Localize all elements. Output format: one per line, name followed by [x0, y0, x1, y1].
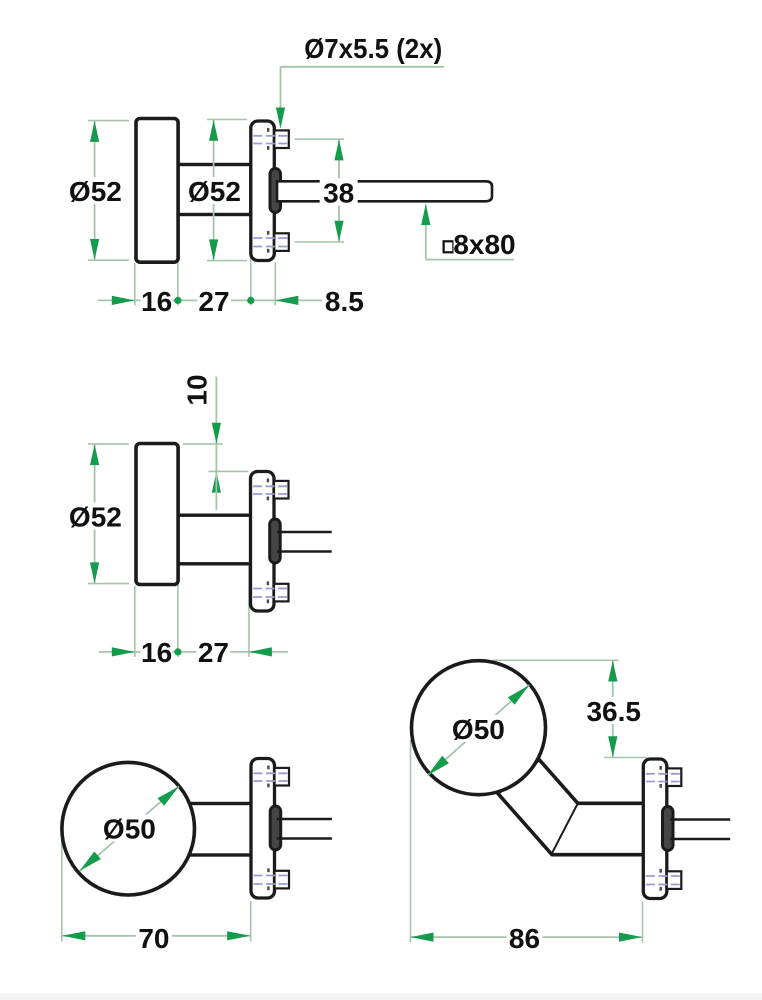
arrow D1 38 down: [334, 221, 343, 242]
spindle 8x80 view1: [277, 181, 492, 201]
rose view2: [251, 472, 289, 612]
svg-text:36.5: 36.5: [586, 696, 641, 727]
text square 8x80: [444, 241, 454, 252]
dim line D2 10 tail: [215, 472, 217, 510]
rose view1: [251, 121, 289, 261]
arrow D2 10 up: [212, 472, 221, 493]
text D1 8.5: [322, 288, 366, 314]
dot D1 16/27: [174, 297, 181, 304]
dim line D4 36.5: [612, 661, 614, 758]
ext line D1 38 top: [295, 138, 345, 140]
dim line D1 bottom: [98, 299, 323, 301]
arrow D1 dia52-left up: [90, 121, 99, 142]
label dia7x5.5 (2x): [300, 34, 446, 61]
rose view3: [251, 759, 289, 899]
dim line D1 dia52-left: [94, 121, 96, 260]
spindle view4 top line: [670, 818, 730, 821]
bent arm view4: [498, 760, 645, 855]
ext line D2 10 lower: [208, 470, 248, 472]
ball knob view3: [62, 762, 195, 895]
ext line D1 27/8.5 shared: [250, 217, 252, 306]
ball knob view4: [412, 661, 546, 795]
dot D1 27/8.5: [247, 297, 254, 304]
arrow D2 27 right: [249, 647, 272, 656]
text D1 dia52 mid: [189, 177, 241, 204]
arm miter crease view4: [552, 803, 578, 853]
svg-text:16: 16: [141, 286, 172, 317]
ext line D1 16/27 shared: [177, 217, 179, 306]
dim line D1 dia52-mid: [213, 120, 215, 261]
ext line D1 dia52-left top: [88, 120, 129, 122]
arrow D2 dia52 down: [90, 562, 99, 583]
svg-text:Ø52: Ø52: [188, 176, 241, 207]
ext line D2 dia52 top: [88, 443, 129, 445]
dim line D2 dia52: [94, 444, 96, 583]
spindle view3 top line: [277, 818, 332, 821]
ext line D1 dia52-left bottom: [88, 259, 129, 261]
svg-text:8.5: 8.5: [325, 286, 364, 317]
svg-text:27: 27: [198, 637, 229, 668]
arrow D1 38 up: [334, 139, 343, 160]
arrow D4 dia50 upper: [508, 685, 529, 705]
leader line label dia7x5.5: [281, 66, 445, 68]
neck view1: [176, 165, 251, 215]
text D1 16: [141, 288, 173, 314]
knob face view1: [136, 119, 178, 263]
ext line D1 38 bottom: [295, 241, 345, 243]
dot D2 16/27: [174, 648, 181, 655]
knob face view2: [136, 444, 178, 585]
ext line D1 16 left: [134, 263, 136, 306]
text D3 70: [136, 925, 172, 951]
dim line D2 10 middle: [215, 444, 217, 472]
ext line D1 dia52-mid top: [207, 119, 247, 121]
ext line D2 16/27 shared: [177, 566, 179, 657]
text D2 16: [141, 639, 173, 665]
dim line D4 86: [411, 936, 643, 938]
ext line D4 36.5 lower: [604, 757, 647, 759]
arrow D1 dia52-left down: [90, 239, 99, 260]
arrow D4 86 right: [619, 933, 642, 942]
arrow D4 36.5 up: [608, 661, 617, 682]
ext line D4 86 right: [642, 902, 644, 943]
svg-text:70: 70: [138, 923, 169, 954]
arrow D4 dia50 lower: [428, 756, 449, 776]
text D1 38: [320, 179, 358, 206]
arrow D1 16 left: [112, 296, 135, 305]
ext line D2 27 right: [248, 566, 250, 657]
svg-text:Ø7x5.5 (2x): Ø7x5.5 (2x): [304, 33, 442, 64]
leader line 8x80 horizontal: [426, 259, 514, 261]
svg-text:Ø50: Ø50: [452, 714, 505, 745]
svg-text:Ø52: Ø52: [69, 502, 122, 533]
svg-text:86: 86: [509, 923, 540, 954]
arrow D1 8.5: [275, 296, 298, 305]
text D1 dia52 left: [69, 177, 121, 204]
arrow D2 dia52 up: [90, 444, 99, 465]
arrow D3 dia50 upper: [158, 786, 179, 806]
neck view3: [180, 804, 253, 856]
text D3 dia50: [101, 815, 157, 842]
ext line D3 70 right: [250, 901, 252, 942]
dim line D2 bottom: [99, 651, 288, 653]
ext line D3 70 left: [61, 825, 63, 942]
dim line D4 dia50: [428, 685, 530, 775]
svg-text:27: 27: [198, 286, 229, 317]
svg-text:Ø52: Ø52: [69, 176, 122, 207]
arrow D3 70 right: [227, 931, 250, 940]
leader drop line: [280, 67, 282, 124]
spindle view3 bottom line: [277, 837, 332, 840]
svg-text:Ø50: Ø50: [103, 814, 156, 845]
ext line D4 86 left: [410, 740, 412, 943]
dim line D1 38: [338, 139, 340, 241]
text D1 27: [197, 288, 231, 314]
ext line D1 dia52-mid bottom: [207, 260, 247, 262]
arrow D2 10 down: [212, 423, 221, 444]
arrow D4 36.5 down: [608, 736, 617, 757]
leader arrow 8x80: [421, 204, 430, 225]
arrow D3 dia50 lower: [80, 852, 101, 872]
arrow D3 70 left: [62, 931, 85, 940]
leader line 8x80 vertical: [425, 205, 427, 260]
ext line D2 16 left: [134, 586, 136, 657]
neck view2: [176, 515, 251, 564]
text D2 27: [196, 639, 230, 665]
text D4 86: [507, 925, 543, 951]
svg-text:38: 38: [323, 178, 354, 209]
ext line D2 dia52 bottom: [88, 583, 129, 585]
ext line D2 10 upper: [183, 443, 223, 445]
svg-text:10: 10: [182, 374, 213, 405]
text D4 36.5: [586, 697, 642, 724]
leader arrow: [276, 108, 285, 129]
dim line D3 70: [62, 935, 250, 937]
text D2 dia52: [69, 503, 121, 530]
spindle view4 bottom line: [670, 838, 730, 841]
spindle view2 top line: [277, 531, 332, 534]
svg-text:16: 16: [141, 637, 172, 668]
footer band: [0, 994, 762, 1000]
arrow D4 86 left: [411, 933, 434, 942]
svg-text:8x80: 8x80: [453, 229, 515, 260]
arrow D1 dia52-mid up: [209, 120, 218, 141]
arrow D2 16 left: [112, 647, 135, 656]
rose view4: [643, 759, 681, 899]
ext line D4 36.5 upper: [493, 659, 619, 661]
dim line D3 dia50: [80, 786, 180, 871]
text D4 dia50: [450, 715, 506, 742]
arrow D1 dia52-mid down: [209, 239, 218, 260]
dim line D2 10 upper: [215, 377, 217, 444]
ext line D1 8.5 right: [274, 262, 276, 306]
spindle view2 bottom line: [277, 550, 332, 553]
